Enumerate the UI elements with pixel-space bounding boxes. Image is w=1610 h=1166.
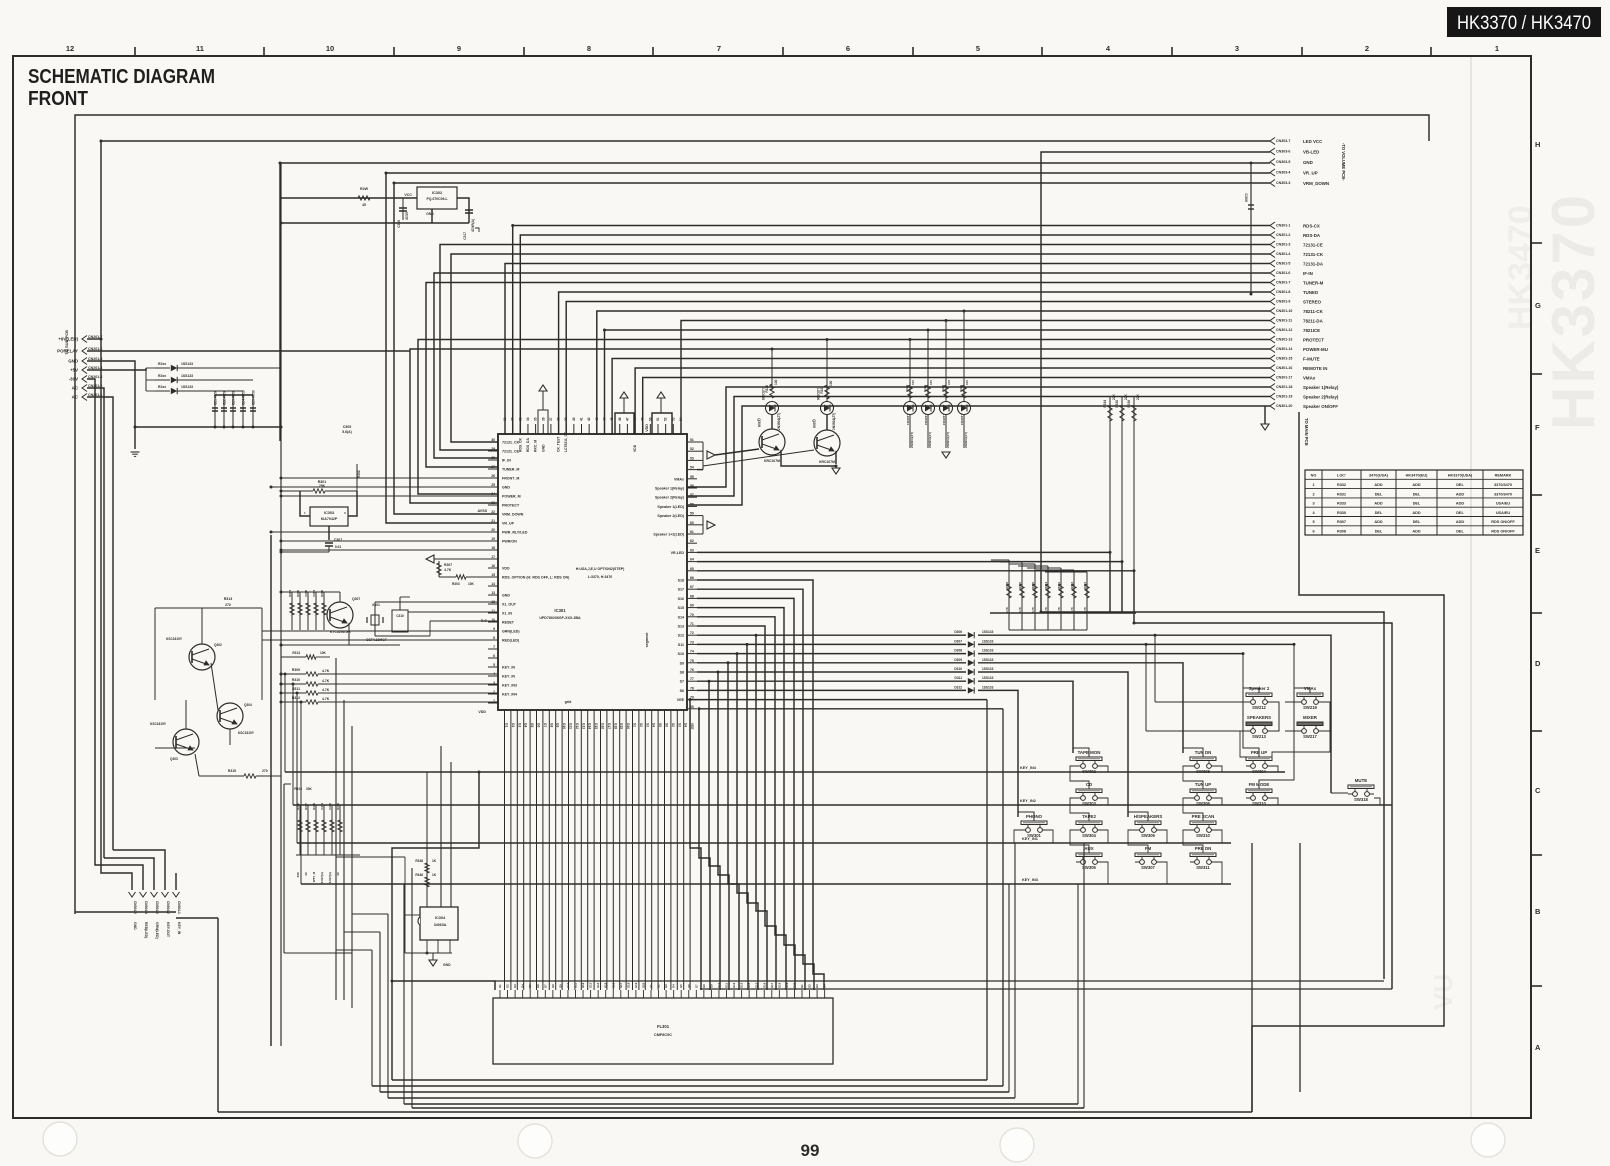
resistor R308 row KEY (281, 673, 306, 675)
svg-text:GND: GND (1303, 160, 1313, 165)
svg-text:R331: R331 (1337, 492, 1346, 496)
svg-text:4.7K: 4.7K (322, 688, 330, 692)
wire VEE pin79 (690, 699, 987, 701)
svg-text:G20: G20 (626, 723, 630, 729)
svg-text:KRC107M: KRC107M (764, 459, 780, 463)
svg-text:HK3470(EU): HK3470(EU) (1406, 474, 1428, 478)
svg-text:G5: G5 (528, 984, 532, 988)
wire y977 into FL (392, 981, 495, 990)
scan artifact vertical line (1470, 56, 1472, 1117)
svg-text:PROTECT: PROTECT (1303, 338, 1324, 343)
svg-text:B: B (1535, 907, 1541, 916)
svg-text:G2: G2 (657, 984, 661, 988)
wire TAPE col feed (1073, 681, 1089, 757)
svg-text:22K: 22K (1124, 393, 1128, 400)
FL301 grid wires from IC301 (504, 720, 506, 990)
svg-text:G19: G19 (620, 723, 624, 729)
svg-text:G15: G15 (594, 723, 598, 729)
svg-text:S6: S6 (680, 689, 684, 693)
transistor Q309 (814, 430, 840, 456)
svg-text:SW310: SW310 (1196, 833, 1210, 838)
ground arrow LED cluster (942, 452, 950, 458)
svg-text:Speaker ON/OFF: Speaker ON/OFF (1303, 404, 1338, 409)
svg-text:Q308: Q308 (757, 418, 761, 427)
wire R330 bottom (1121, 562, 1123, 613)
svg-text:SW301: SW301 (1027, 833, 1041, 838)
connector CN201 pin -30V (82, 376, 87, 383)
wire cluster top rail (281, 591, 340, 593)
svg-text:L:3370, H:3470: L:3370, H:3470 (588, 575, 613, 579)
wire bus up x1009 (1008, 884, 1010, 1092)
svg-text:KTC3206-GR: KTC3206-GR (330, 630, 351, 634)
FL301 top pin stubs (499, 990, 501, 998)
svg-text:72131-DA: 72131-DA (1303, 262, 1324, 267)
transistor Q302 (189, 644, 215, 670)
svg-text:TO MAIN PCB: TO MAIN PCB (1304, 418, 1309, 446)
svg-text:99: 99 (801, 1141, 820, 1160)
svg-text:1K: 1K (432, 873, 437, 877)
svg-text:54: 54 (679, 417, 683, 421)
svg-text:GND: GND (426, 212, 434, 216)
svg-text:G14: G14 (588, 723, 592, 729)
svg-text:D308: D308 (954, 649, 962, 653)
svg-text:3370/3470: 3370/3470 (1494, 492, 1512, 496)
wire net Speaker 2(Relay) (687, 397, 1270, 497)
connector CN301-11 arrow (1270, 317, 1275, 324)
wire junction vertical on GND/TUNED (1250, 163, 1252, 294)
svg-text:IC301: IC301 (554, 608, 566, 613)
connector CN301-5 arrow (1270, 260, 1275, 267)
svg-text:20: 20 (491, 528, 495, 532)
svg-text:R303: R303 (452, 582, 460, 586)
wire bus up x1078 (1077, 884, 1079, 1104)
svg-text:S15: S15 (678, 606, 684, 610)
svg-text:41: 41 (580, 417, 584, 421)
wire loop y612 to x1384 (1041, 612, 1384, 979)
svg-text:7: 7 (493, 645, 495, 649)
wire KEY_IN1 rail (297, 842, 1231, 844)
wire Q303 emitter to R315 (195, 754, 199, 776)
LED D306 (821, 402, 834, 415)
wire -30V down (87, 379, 95, 800)
svg-text:48: 48 (633, 417, 637, 421)
svg-text:25: 25 (491, 483, 495, 487)
svg-text:13: 13 (491, 591, 495, 595)
wire R334 bottom to y613 (1109, 552, 1111, 613)
svg-text:CN301-8: CN301-8 (1276, 290, 1290, 294)
svg-text:A: A (1535, 1043, 1541, 1052)
svg-text:SW303: SW303 (1082, 801, 1096, 806)
wire X1_OUT line (408, 611, 498, 613)
wire bus riser 4 (387, 914, 389, 1098)
svg-text:F: F (1535, 423, 1540, 432)
svg-text:1SS133: 1SS133 (982, 658, 994, 662)
svg-text:HK3370 / HK3470: HK3370 / HK3470 (1457, 12, 1591, 34)
svg-text:1SS133: 1SS133 (982, 667, 994, 671)
svg-text:S3: S3 (645, 723, 649, 727)
resistor R348 (426, 772, 428, 907)
svg-text:GRN(LED): GRN(LED) (502, 630, 520, 634)
transistor Q307 (327, 602, 353, 628)
svg-text:8: 8 (587, 44, 591, 53)
svg-text:7: 7 (717, 44, 721, 53)
wire +9V riser junction (87, 338, 101, 340)
svg-text:CN301-9: CN301-9 (1276, 300, 1290, 304)
svg-text:14: 14 (491, 582, 495, 586)
connector CN201 pin PORELAY (82, 348, 87, 355)
connector CN301-19 arrow (1270, 393, 1275, 400)
wire net IF-IN (434, 273, 1270, 458)
svg-text:G17: G17 (770, 982, 774, 988)
svg-text:FL301: FL301 (657, 1024, 670, 1029)
svg-text:PWR/ON: PWR/ON (502, 540, 517, 544)
svg-text:45: 45 (610, 417, 614, 421)
connector CN301-9 arrow (1270, 298, 1275, 305)
wire bottom bus long (218, 1111, 1252, 1113)
wire AC1 down (87, 388, 104, 858)
svg-text:S16: S16 (678, 597, 684, 601)
svg-text:S3: S3 (677, 723, 681, 727)
svg-text:26: 26 (491, 474, 495, 478)
svg-text:1SS133: 1SS133 (181, 385, 193, 389)
svg-text:Speaker 2(Relay): Speaker 2(Relay) (655, 496, 685, 500)
wire Q309 collector to LED (826, 415, 828, 430)
ground arrow Q309 (832, 468, 840, 474)
svg-text:CN304-3: CN304-3 (155, 901, 159, 914)
connector CN301-8 arrow (1270, 289, 1275, 296)
wire bank top staircase (991, 559, 1009, 561)
svg-text:grid: grid (565, 700, 572, 704)
svg-text:Speaker 1(Relay): Speaker 1(Relay) (1303, 385, 1339, 390)
svg-text:6: 6 (1312, 530, 1314, 534)
svg-text:55: 55 (690, 475, 694, 479)
diode D203 row (155, 390, 170, 392)
svg-text:47: 47 (625, 417, 629, 421)
wire y613 rail (990, 612, 1136, 614)
svg-text:62: 62 (690, 539, 694, 543)
wire bank bottom rail (1009, 629, 1087, 631)
resistor R321 above D306 (826, 340, 828, 402)
svg-text:USA/EU: USA/EU (1496, 511, 1511, 515)
svg-text:SPEAKERS: SPEAKERS (1247, 715, 1271, 720)
svg-text:4.7K: 4.7K (1070, 606, 1074, 613)
wire KEY_IN4 rail (289, 674, 1285, 772)
svg-text:10K: 10K (468, 582, 475, 586)
IC302 box (417, 187, 457, 209)
wire row E right leads to KEY_IN1 (1047, 830, 1053, 843)
wire net VMAx (643, 378, 1270, 436)
svg-text:R321: R321 (820, 386, 824, 394)
wire RED LED feed (262, 639, 498, 641)
svg-text:G13: G13 (581, 723, 585, 729)
svg-text:76: 76 (690, 668, 694, 672)
svg-text:G6: G6 (687, 984, 691, 988)
svg-text:CN301-3: CN301-3 (1276, 243, 1290, 247)
svg-text:R334: R334 (1083, 582, 1087, 589)
svg-text:C311: C311 (320, 803, 324, 810)
svg-text:AC: AC (72, 395, 79, 400)
svg-text:ADD: ADD (1374, 502, 1382, 506)
svg-text:R308: R308 (1337, 530, 1346, 534)
svg-text:DEL: DEL (1375, 530, 1383, 534)
svg-text:G7: G7 (694, 984, 698, 988)
svg-text:S10: S10 (678, 652, 684, 656)
svg-text:LED VCC: LED VCC (1303, 139, 1323, 144)
svg-text:PWR_RLY/LED: PWR_RLY/LED (502, 531, 528, 535)
svg-text:57: 57 (690, 493, 694, 497)
punch holes (43, 1122, 77, 1156)
wire LED cluster bottom rail (910, 447, 964, 449)
svg-text:VDD: VDD (645, 424, 649, 432)
svg-text:CN304-2: CN304-2 (166, 901, 170, 914)
svg-text:IC303: IC303 (324, 511, 334, 515)
svg-text:4.7K: 4.7K (1005, 606, 1009, 613)
svg-text:CN304-4: CN304-4 (144, 901, 148, 914)
svg-text:TUNER_M: TUNER_M (502, 468, 519, 472)
svg-text:R329: R329 (1018, 582, 1022, 589)
svg-text:R317: R317 (304, 803, 308, 810)
svg-text:CN301-7: CN301-7 (1276, 281, 1290, 285)
wire loop VR_UP (386, 173, 1270, 523)
svg-text:IF-IN: IF-IN (1303, 271, 1313, 276)
wire bottom bus 3 (380, 1091, 1009, 1093)
capacitor C307 (325, 542, 333, 544)
wire VR-LED pin63 (697, 551, 1110, 553)
connector CN201 pin AC (82, 385, 87, 392)
wire Speaker2 col feed (1243, 654, 1259, 693)
wire net 72131-DA (505, 264, 1270, 436)
svg-text:22K: 22K (1112, 393, 1116, 400)
LED D305 (766, 402, 779, 415)
wire bundle left vertical 4 (113, 850, 165, 890)
wire Speaker2 A-B link (1272, 702, 1279, 731)
svg-text:SW305: SW305 (1141, 833, 1155, 838)
svg-text:21: 21 (491, 519, 495, 523)
svg-text:2N3904(ZT): 2N3904(ZT) (777, 413, 781, 430)
svg-text:POWER-MU: POWER-MU (1303, 347, 1328, 352)
svg-text:4.7K: 4.7K (1083, 606, 1087, 613)
svg-text:Speaker 1(Relay): Speaker 1(Relay) (655, 487, 685, 491)
svg-text:100: 100 (929, 380, 933, 385)
svg-text:CN303-5: CN303-5 (1276, 160, 1290, 164)
svg-text:VMAx: VMAx (1303, 376, 1316, 381)
resistor R338 (1133, 396, 1135, 571)
wire FRONT_M feed (281, 477, 498, 479)
svg-text:D306: D306 (954, 630, 962, 634)
svg-text:LC75211_CE: LC75211_CE (564, 431, 568, 452)
transistor Q303 (173, 729, 199, 755)
svg-text:KSC1815Y: KSC1815Y (166, 637, 183, 641)
svg-text:9: 9 (457, 44, 461, 53)
svg-text:R338: R338 (1127, 400, 1131, 408)
svg-text:VRM_DOWN: VRM_DOWN (502, 513, 524, 517)
wire net 78211-CK (597, 311, 1270, 435)
svg-text:C24 47/50: C24 47/50 (242, 390, 246, 405)
svg-text:R313: R313 (292, 651, 300, 655)
wire right loop y989 (700, 988, 1392, 990)
svg-text:49: 49 (641, 417, 645, 421)
svg-text:AC: AC (72, 386, 79, 391)
svg-text:R2xx: R2xx (158, 385, 166, 389)
IC301 bottom pin stubs (504, 710, 506, 720)
svg-text:GND: GND (68, 359, 78, 364)
svg-text:G4: G4 (672, 984, 676, 988)
svg-text:D: D (1535, 659, 1541, 668)
svg-text:S4: S4 (684, 723, 688, 727)
svg-text:S8: S8 (680, 671, 684, 675)
svg-text:KEY_IN: KEY_IN (177, 922, 181, 935)
svg-text:S2: S2 (639, 723, 643, 727)
wire S11 pin73 diode (697, 643, 966, 645)
connector CN301-18 arrow (1270, 384, 1275, 391)
svg-text:G4: G4 (521, 984, 525, 988)
svg-text:G: G (1535, 301, 1541, 310)
wire S12 pin72 with diode (697, 634, 966, 636)
svg-text:1SS133: 1SS133 (181, 362, 193, 366)
svg-text:45: 45 (362, 203, 366, 207)
svg-text:HK3370(USA): HK3370(USA) (1448, 474, 1473, 478)
svg-text:2N3904(ZT): 2N3904(ZT) (832, 413, 836, 430)
svg-text:2N3904(ZT): 2N3904(ZT) (946, 432, 950, 448)
svg-text:G11: G11 (725, 982, 729, 988)
svg-text:G3: G3 (664, 984, 668, 988)
wire RDS_OPTION arrow (426, 555, 434, 563)
wire net F-MUTE (612, 359, 1270, 436)
svg-text:DEL: DEL (1413, 502, 1421, 506)
svg-text:SW217: SW217 (1303, 734, 1317, 739)
svg-text:32: 32 (511, 417, 515, 421)
wire row D right leads to KEY_IN2 (1102, 798, 1108, 805)
svg-text:6: 6 (493, 654, 495, 658)
ground symbol left (131, 451, 140, 453)
svg-text:47/4R(A): 47/4R(A) (471, 219, 475, 232)
svg-text:G4: G4 (823, 984, 827, 988)
svg-text:5: 5 (493, 663, 495, 667)
wire Q302 connections (201, 608, 203, 644)
svg-text:DEL: DEL (1375, 511, 1383, 515)
svg-text:RDS ON/OFF: RDS ON/OFF (1491, 520, 1515, 524)
connector CN303 arrows and labels (1270, 138, 1275, 145)
svg-text:KEY_IN: KEY_IN (502, 675, 515, 679)
svg-text:SW305: SW305 (1082, 865, 1096, 870)
svg-text:63: 63 (690, 548, 694, 552)
svg-text:1: 1 (1312, 483, 1314, 487)
svg-text:22K: 22K (1136, 393, 1140, 400)
svg-text:31: 31 (503, 417, 507, 421)
svg-text:IC302: IC302 (432, 191, 442, 195)
wire +5V (87, 368, 146, 370)
svg-text:17: 17 (491, 555, 495, 559)
svg-text:R333: R333 (1070, 582, 1074, 589)
connector CN301-2 arrow (1270, 232, 1275, 239)
svg-text:R2xx: R2xx (158, 362, 166, 366)
connector CN301-4 arrow (1270, 251, 1275, 258)
connector CN201 pin AC (82, 394, 87, 401)
wire Q308 emitter (781, 450, 836, 466)
wire SW217 bottom drop (1272, 731, 1330, 757)
wire S15 pin69 (697, 608, 795, 990)
wire bus riser 5 (403, 884, 405, 1104)
wire net TUNER-M (426, 283, 1270, 468)
svg-text:R320: R320 (765, 385, 769, 393)
svg-text:C312: C312 (328, 803, 332, 810)
svg-text:G14: G14 (596, 982, 600, 988)
svg-text:68: 68 (690, 594, 694, 598)
wire pin80 long (699, 708, 1003, 710)
svg-text:KEY_IN2: KEY_IN2 (1020, 799, 1036, 803)
svg-text:1SS133: 1SS133 (982, 685, 994, 689)
svg-text:72131_CK: 72131_CK (502, 441, 520, 445)
wire bottom bus 2 (372, 1085, 1003, 1087)
svg-text:6: 6 (846, 44, 850, 53)
svg-text:23: 23 (491, 501, 495, 505)
svg-text:RED(LED): RED(LED) (502, 639, 520, 643)
svg-text:Q303: Q303 (170, 757, 178, 761)
wire R338 bottom (1133, 571, 1135, 613)
resistor bank R328-R333 4.7K (1008, 560, 1010, 630)
svg-text:C308: C308 (304, 590, 308, 597)
wire X301 to RESET/X1 pins (375, 603, 498, 608)
svg-text:10: 10 (326, 44, 334, 53)
svg-text:G18: G18 (777, 982, 781, 988)
svg-text:R331: R331 (1044, 582, 1048, 589)
wire switch row A feed riser (1154, 635, 1156, 702)
svg-text:CN301-13: CN301-13 (1276, 338, 1292, 342)
ground arrow below CN301 (1264, 406, 1266, 424)
wire Q307 emitter down (339, 628, 341, 645)
svg-text:ADD: ADD (1374, 520, 1382, 524)
wire S6 pin78 diode (697, 689, 966, 691)
svg-text:SW302: SW302 (1082, 769, 1096, 774)
svg-text:CN301-6: CN301-6 (1276, 271, 1290, 275)
svg-text:100: 100 (774, 379, 778, 385)
svg-text:50: 50 (648, 417, 652, 421)
wire KEY_IN3 rail (301, 883, 1231, 885)
svg-text:CN301-1: CN301-1 (1276, 224, 1290, 228)
svg-text:G2: G2 (808, 984, 812, 988)
svg-text:KEY_IN4: KEY_IN4 (1020, 766, 1037, 770)
connector CN301-7 arrow (1270, 279, 1275, 286)
svg-text:36: 36 (541, 417, 545, 421)
wire loop into IC302 area (281, 197, 417, 199)
svg-text:R307: R307 (444, 563, 452, 567)
svg-text:FRONT_M: FRONT_M (502, 477, 519, 481)
svg-text:G1: G1 (498, 984, 502, 988)
wire switch row A left rail (1155, 701, 1246, 703)
wire CN304 pin5 stub (175, 873, 177, 890)
svg-text:78211-CK: 78211-CK (1303, 309, 1324, 314)
svg-text:270: 270 (262, 769, 268, 773)
svg-text:SW304: SW304 (1082, 833, 1096, 838)
svg-text:VMAx: VMAx (674, 477, 684, 481)
svg-text:ADD: ADD (1412, 483, 1420, 487)
svg-text:H: H (1535, 140, 1540, 149)
wire loop y623 to x1392 (1134, 613, 1392, 989)
svg-text:R346: R346 (415, 873, 423, 877)
FL301 body (493, 998, 833, 1064)
svg-text:78211-DA: 78211-DA (1303, 319, 1324, 324)
svg-text:R323: R323 (905, 385, 909, 393)
svg-text:R305: R305 (296, 590, 300, 597)
wire pin18 feed (281, 549, 498, 551)
svg-text:GND: GND (541, 444, 545, 452)
svg-text:2: 2 (1312, 492, 1314, 496)
wire arrow to Q308 base (715, 449, 759, 455)
svg-text:C304: C304 (312, 590, 316, 597)
wire bottom bus 4 (388, 1097, 1015, 1099)
svg-text:1SS133: 1SS133 (982, 639, 994, 643)
wire VEE staircase (986, 699, 988, 701)
